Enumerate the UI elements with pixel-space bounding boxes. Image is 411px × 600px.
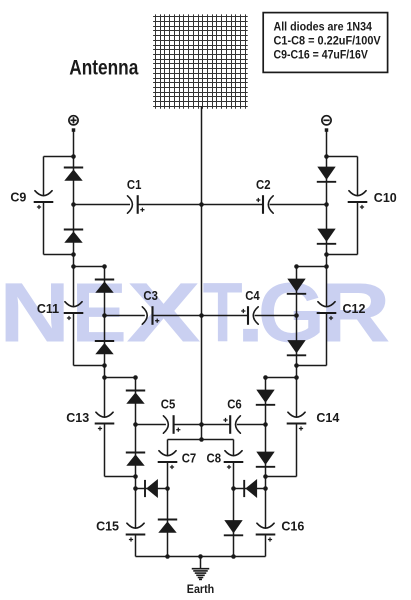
svg-text:C13: C13 bbox=[66, 411, 89, 425]
svg-text:X: X bbox=[126, 266, 201, 360]
svg-text:C8: C8 bbox=[207, 451, 222, 465]
svg-text:C10: C10 bbox=[374, 191, 397, 205]
svg-text:C4: C4 bbox=[245, 289, 260, 303]
svg-text:C1-C8 = 0.22uF/100V: C1-C8 = 0.22uF/100V bbox=[274, 35, 381, 48]
svg-text:C15: C15 bbox=[96, 520, 119, 534]
svg-text:C11: C11 bbox=[37, 302, 59, 316]
svg-text:C1: C1 bbox=[127, 178, 142, 192]
svg-text:C2: C2 bbox=[256, 178, 271, 192]
svg-text:C9-C16 = 47uF/16V: C9-C16 = 47uF/16V bbox=[274, 49, 369, 62]
svg-text:C14: C14 bbox=[316, 411, 339, 425]
svg-text:C6: C6 bbox=[227, 398, 242, 412]
svg-text:C16: C16 bbox=[281, 520, 304, 534]
svg-text:All diodes are 1N34: All diodes are 1N34 bbox=[274, 21, 373, 34]
svg-text:C12: C12 bbox=[343, 302, 366, 316]
svg-text:N: N bbox=[0, 266, 70, 360]
svg-text:C3: C3 bbox=[143, 289, 158, 303]
svg-text:C5: C5 bbox=[161, 398, 176, 412]
svg-text:Antenna: Antenna bbox=[69, 56, 139, 80]
svg-text:C9: C9 bbox=[10, 190, 26, 204]
svg-text:Earth: Earth bbox=[187, 582, 214, 596]
svg-text:C7: C7 bbox=[182, 451, 197, 465]
